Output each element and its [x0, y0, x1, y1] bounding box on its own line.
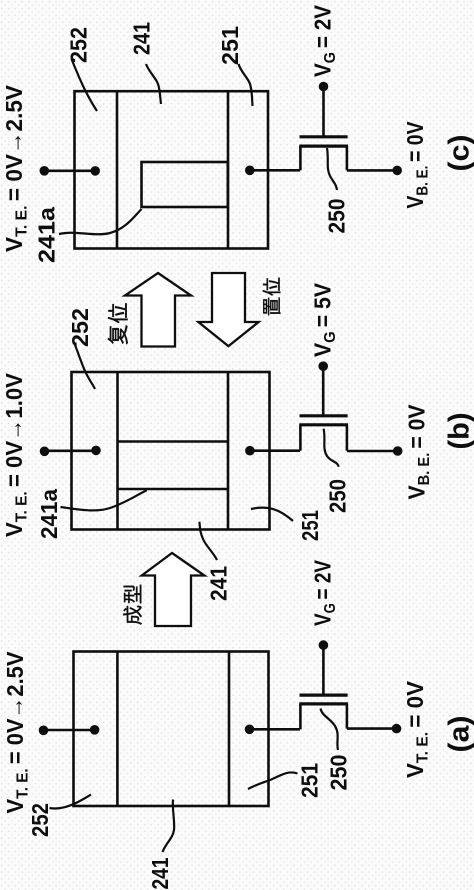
svg-text:241: 241 — [129, 22, 155, 55]
node dot: top electrode contact (c) — [90, 166, 100, 176]
transistor Q (a) gate lead — [322, 645, 325, 695]
svg-text:251: 251 — [217, 26, 243, 65]
transistor Q (b) gate lead — [322, 366, 325, 416]
transistor Q (b) source vertical — [299, 425, 302, 451]
leader line label 241a (c) — [59, 209, 142, 234]
node dot: gate terminal (b) — [318, 361, 328, 371]
transistor Q (a) source vertical — [299, 704, 302, 729]
svg-text:VG = 2V: VG = 2V — [310, 559, 340, 626]
node dot: gate terminal (a) — [319, 640, 329, 650]
svg-text:252: 252 — [67, 308, 93, 347]
divider line in layer 241 lower / 241a top (b) — [118, 488, 229, 491]
svg-text:VG = 5V: VG = 5V — [310, 282, 340, 357]
svg-text:(b): (b) — [444, 413, 474, 450]
transistor Q (c) drain vertical — [346, 146, 349, 170]
svg-text:252: 252 — [27, 803, 53, 837]
node dot: gate terminal (c) — [319, 82, 329, 92]
svg-text:241: 241 — [147, 857, 173, 889]
transistor Q (a) channel bar — [299, 702, 348, 705]
leader line label 241 (b) — [199, 522, 217, 560]
wire cell to transistor (b) — [250, 449, 300, 452]
text forming char cheng — [123, 606, 142, 625]
leader line label 252 (b) — [75, 345, 95, 389]
leader line label 241 (a) — [163, 800, 175, 853]
arrow down (set) — [198, 273, 258, 346]
leader line label 251 (c) — [239, 64, 253, 106]
node dot: bottom electrode terminal (c) — [392, 166, 402, 176]
wire top electrode (c) — [44, 170, 95, 173]
node dot: top electrode terminal (c) — [40, 166, 50, 176]
layer boundary 252/241 (a) — [116, 652, 119, 807]
svg-text:250: 250 — [324, 199, 350, 234]
svg-text:(c): (c) — [444, 135, 474, 172]
text set char wei — [263, 278, 281, 296]
transistor Q (b) gate bar — [300, 414, 348, 417]
leader line label 252 (a) — [50, 795, 92, 809]
node dot: right terminal (a) — [392, 724, 402, 734]
node dot: bottom electrode contact (c) — [245, 166, 255, 176]
layer boundary 241/251 (a) — [228, 652, 231, 807]
transistor Q (b) channel bar — [299, 423, 348, 426]
node dot: top electrode terminal (b) — [40, 447, 50, 457]
node dot: bottom electrode terminal (b) — [393, 446, 403, 456]
transistor Q (a) gate bar — [300, 693, 348, 696]
leader line label 251 (b) — [251, 508, 293, 521]
text reset char wei — [108, 303, 128, 323]
memory cell (b) outer rectangle — [72, 372, 270, 530]
svg-text:251: 251 — [297, 763, 323, 798]
leader line label 251 (a) — [248, 772, 298, 789]
transistor Q (a) drain vertical — [346, 704, 349, 729]
svg-text:241: 241 — [206, 566, 232, 601]
wire top electrode (b) — [45, 449, 97, 452]
svg-text:250: 250 — [326, 755, 352, 791]
transistor Q (c) gate lead — [322, 87, 325, 137]
transistor Q (b) drain vertical — [346, 425, 349, 451]
svg-text:251: 251 — [297, 510, 323, 541]
node dot: top electrode contact (a) — [90, 725, 100, 735]
wire cell to transistor (a) — [250, 728, 301, 731]
transistor Q (c) gate bar — [300, 135, 348, 138]
leader line label 241 (c) — [146, 64, 161, 104]
leader line label 252 (c) — [72, 59, 98, 111]
layer boundary 241/251 (c) — [227, 91, 230, 248]
leader line label 250 (b) — [324, 429, 339, 467]
svg-text:252: 252 — [66, 27, 92, 63]
memory cell (a) outer rectangle — [74, 652, 269, 807]
node dot: bottom electrode contact (b) — [245, 446, 255, 456]
text forming char xing — [124, 585, 142, 603]
filament region 241a rectangle (c) — [142, 162, 228, 207]
svg-text:VG = 2V: VG = 2V — [310, 4, 340, 77]
wire transistor to right terminal (a) — [347, 727, 397, 730]
wire transistor to bottom electrode terminal (b) — [347, 450, 398, 453]
node dot: top electrode contact (b) — [91, 446, 101, 456]
leader line label 250 (c) — [327, 148, 337, 190]
leader line label 241a (b) — [61, 490, 147, 510]
leader line label 250 (a) — [321, 709, 339, 751]
svg-text:241a: 241a — [34, 207, 60, 263]
layer boundary 252/241 (c) — [116, 91, 119, 248]
layer boundary 241/251 (b) — [227, 372, 230, 530]
svg-text:250: 250 — [325, 479, 351, 513]
transistor Q (c) source vertical — [299, 146, 302, 170]
layer boundary 252/241 (b) — [116, 372, 119, 530]
arrow up (reset) — [125, 273, 191, 347]
wire cell to transistor (c) — [250, 169, 300, 172]
wire transistor to bottom electrode terminal (c) — [347, 169, 397, 172]
node dot: top electrode terminal (a) — [39, 726, 49, 736]
arrow up (forming) — [142, 553, 205, 626]
transistor Q (c) channel bar — [299, 145, 348, 148]
wire top electrode (a) — [44, 729, 95, 732]
svg-text:241a: 241a — [36, 489, 62, 539]
text set char zhi — [263, 297, 280, 315]
divider line in layer 241 upper (b) — [118, 440, 229, 443]
text reset char fu — [108, 325, 128, 344]
memory cell (c) outer rectangle — [75, 91, 269, 248]
node dot: bottom electrode contact (a) — [245, 725, 255, 735]
svg-text:(a): (a) — [444, 716, 474, 753]
